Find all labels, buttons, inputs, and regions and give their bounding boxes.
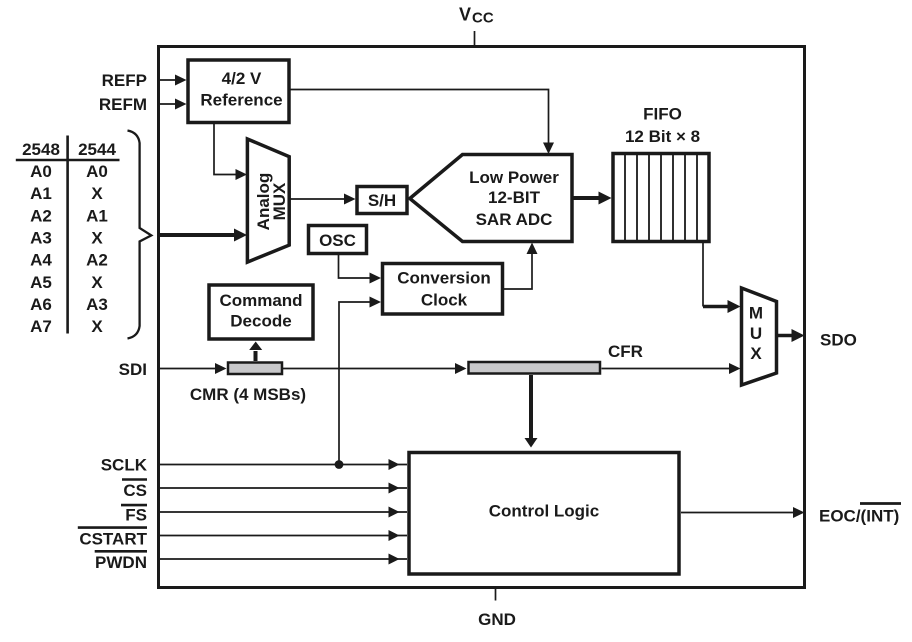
junction dot — [335, 460, 344, 469]
wire reference to analog mux — [214, 124, 247, 180]
wire analog mux to S/H — [290, 194, 356, 205]
svg-text:A5: A5 — [30, 273, 52, 292]
svg-text:MUX: MUX — [270, 182, 289, 220]
block analog mux — [247, 139, 289, 262]
svg-text:X: X — [750, 344, 762, 363]
svg-text:OSC: OSC — [319, 231, 356, 250]
channel table rows — [30, 162, 108, 336]
port PWDN label (active low) — [95, 551, 147, 572]
svg-text:A7: A7 — [30, 317, 52, 336]
wire SCLK — [157, 459, 407, 470]
block OSC — [309, 226, 367, 254]
wire GND stem — [495, 589, 497, 601]
svg-text:SDO: SDO — [820, 330, 857, 349]
svg-text:PWDN: PWDN — [95, 553, 147, 572]
wire sclk junction to conversion clock — [339, 297, 381, 465]
svg-text:A4: A4 — [30, 251, 52, 270]
svg-text:SDI: SDI — [119, 360, 147, 379]
svg-text:V: V — [459, 5, 471, 25]
wire reference to ADC top — [291, 90, 555, 155]
wire VCC stem — [474, 31, 476, 45]
svg-text:Control Logic: Control Logic — [489, 502, 599, 521]
register CMR — [228, 363, 282, 375]
wire CMR to command decode (thick up arrow) — [249, 342, 262, 362]
svg-text:12 Bit × 8: 12 Bit × 8 — [625, 127, 700, 146]
wire CSTART — [157, 530, 407, 541]
svg-text:EOC/(INT): EOC/(INT) — [819, 507, 899, 526]
svg-text:FS: FS — [125, 506, 147, 525]
channel table column divider — [66, 136, 69, 334]
wire OSC to conversion clock — [339, 254, 382, 284]
svg-text:U: U — [750, 324, 762, 343]
svg-text:Conversion: Conversion — [397, 269, 491, 288]
net VCC label — [459, 5, 494, 27]
svg-text:REFM: REFM — [99, 95, 147, 114]
port FS label (active low) — [121, 505, 147, 524]
block S/H — [357, 187, 407, 214]
wire channel input to analog mux (thick) — [157, 229, 247, 242]
svg-text:GND: GND — [478, 610, 516, 629]
svg-text:Clock: Clock — [421, 291, 468, 310]
wire FIFO to output mux — [703, 243, 741, 314]
block control logic — [409, 453, 679, 575]
block command decode — [209, 285, 313, 339]
svg-text:CSTART: CSTART — [79, 529, 147, 548]
wire CMR to CFR — [283, 363, 467, 374]
block FIFO — [613, 154, 709, 242]
svg-text:Reference: Reference — [200, 91, 282, 110]
svg-text:A2: A2 — [86, 251, 108, 270]
svg-text:FIFO: FIFO — [643, 105, 682, 124]
port EOC/(INT) label — [819, 504, 901, 526]
wire PWDN — [157, 554, 407, 565]
port CSTART label (active low) — [78, 528, 148, 549]
svg-text:Command: Command — [219, 291, 302, 310]
device boundary — [159, 47, 805, 588]
block reference 4/2 V — [188, 60, 289, 123]
wire output mux to SDO — [777, 329, 805, 342]
svg-text:CMR (4 MSBs): CMR (4 MSBs) — [190, 385, 306, 404]
svg-text:SAR ADC: SAR ADC — [476, 210, 553, 229]
svg-text:A3: A3 — [30, 229, 52, 248]
wire CS — [157, 483, 407, 494]
svg-text:A0: A0 — [86, 162, 108, 181]
svg-text:X: X — [91, 273, 103, 292]
wire control logic to EOC — [681, 507, 805, 518]
svg-text:Low Power: Low Power — [469, 168, 559, 187]
block SAR ADC — [410, 155, 572, 242]
wire FS — [157, 507, 407, 518]
svg-text:12-BIT: 12-BIT — [488, 188, 541, 207]
svg-text:CC: CC — [472, 10, 494, 27]
wire ADC to FIFO (thick) — [573, 192, 612, 205]
block conversion clock — [383, 264, 503, 315]
svg-text:CS: CS — [123, 481, 147, 500]
port CS label (active low) — [122, 480, 147, 500]
svg-text:X: X — [91, 184, 103, 203]
svg-text:CFR: CFR — [608, 342, 643, 361]
wire REFM — [157, 99, 187, 110]
svg-text:S/H: S/H — [368, 191, 396, 210]
svg-text:A1: A1 — [30, 184, 52, 203]
svg-text:M: M — [749, 304, 763, 323]
svg-text:2544: 2544 — [78, 140, 116, 159]
svg-text:SCLK: SCLK — [101, 456, 148, 475]
channel brace — [128, 131, 152, 339]
svg-text:A3: A3 — [86, 295, 108, 314]
register CFR — [469, 362, 601, 374]
wire CFR to control logic (thick down arrow) — [525, 375, 538, 448]
wire REFP — [157, 75, 187, 86]
svg-text:A2: A2 — [30, 206, 52, 225]
svg-text:REFP: REFP — [102, 71, 147, 90]
wire conversion clock to ADC bottom — [503, 243, 538, 290]
svg-text:X: X — [91, 229, 103, 248]
svg-text:4/2 V: 4/2 V — [222, 69, 262, 88]
svg-text:A0: A0 — [30, 162, 52, 181]
svg-text:A1: A1 — [86, 206, 108, 225]
svg-text:A6: A6 — [30, 295, 52, 314]
svg-text:Decode: Decode — [230, 312, 291, 331]
wire SDI to CMR — [157, 363, 227, 374]
channel table header underline — [16, 159, 120, 162]
block output mux — [742, 288, 777, 385]
wire CFR to output mux — [602, 363, 741, 374]
svg-text:2548: 2548 — [22, 140, 60, 159]
svg-text:X: X — [91, 317, 103, 336]
